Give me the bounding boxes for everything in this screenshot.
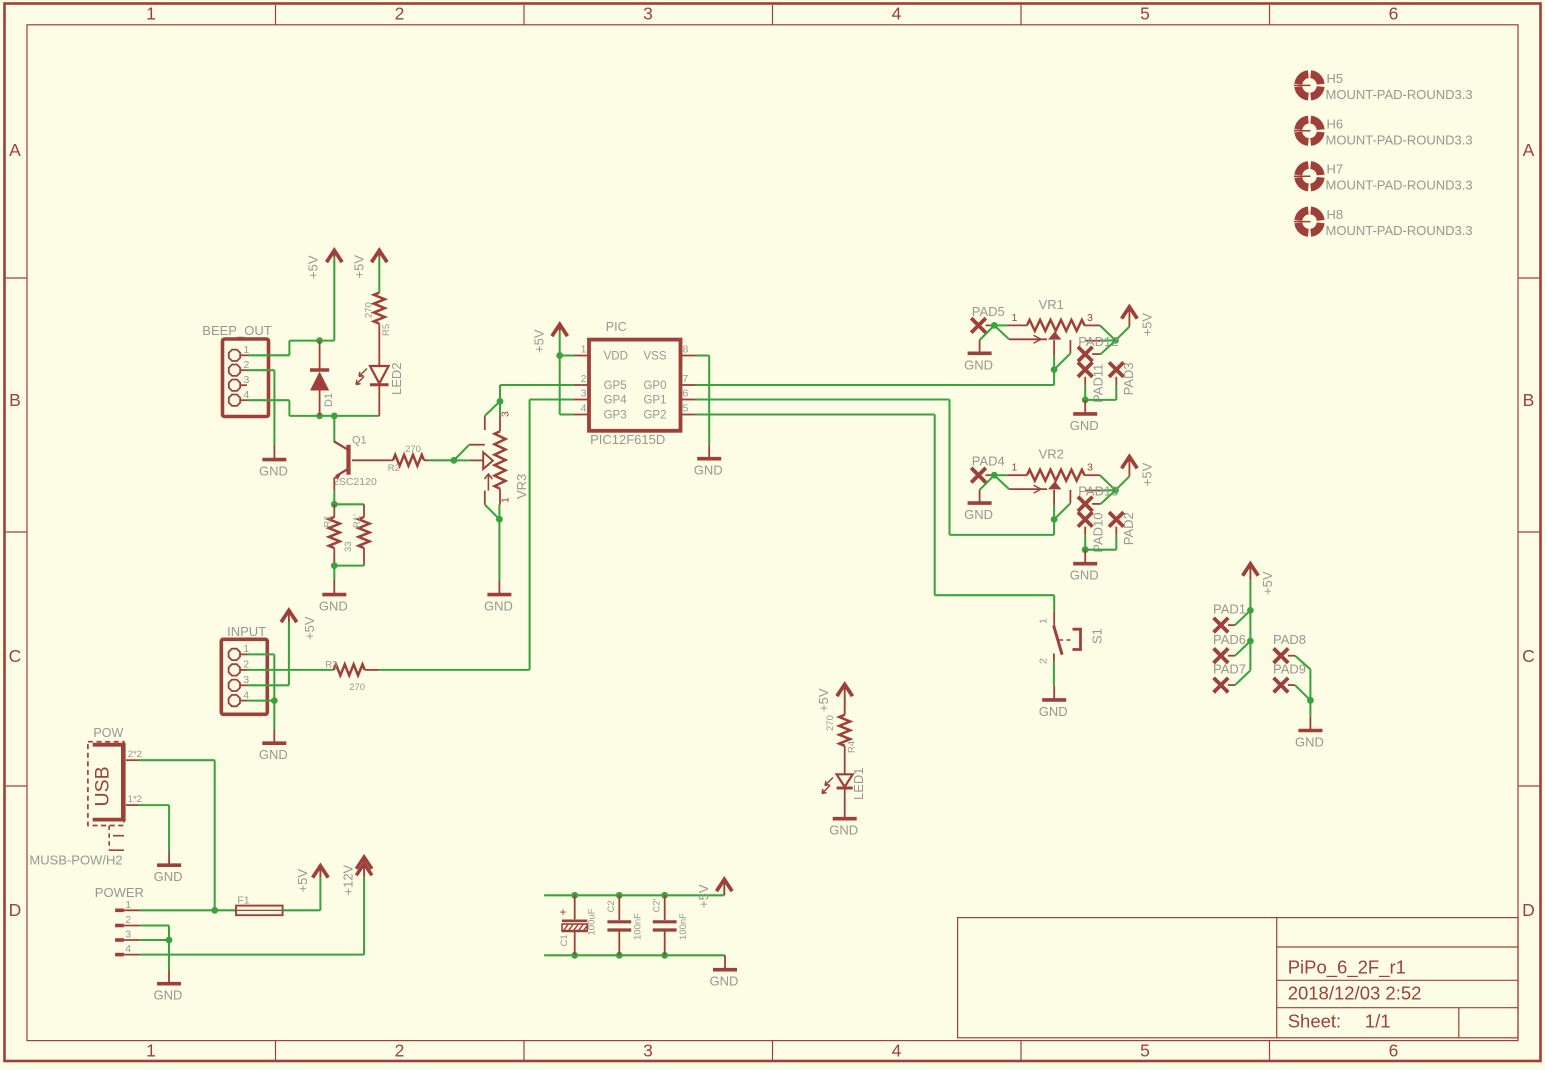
pad PAD4 X (971, 468, 986, 483)
wire bottom rail D1/LED2 (289, 415, 379, 417)
resistor R2 (391, 459, 393, 461)
svg-text:3: 3 (125, 929, 131, 941)
svg-text:2SC2120: 2SC2120 (333, 476, 377, 488)
wire GP2 to S1 (696, 413, 935, 415)
svg-text:PAD9: PAD9 (1273, 662, 1306, 677)
ground (USB) (168, 851, 170, 865)
svg-text:6: 6 (1389, 4, 1399, 24)
svg-text:PAD1: PAD1 (1213, 602, 1246, 617)
capacitor C2 100nF (618, 895, 620, 920)
svg-text:1: 1 (500, 497, 512, 503)
svg-text:3: 3 (643, 1041, 653, 1061)
PIC pin 2 GP5 (574, 384, 589, 386)
svg-text:PAD7: PAD7 (1213, 662, 1246, 677)
BEEP_OUT pin 2 (229, 365, 240, 376)
junction VR1 right (1112, 337, 1119, 344)
junction cap bottom (616, 952, 623, 959)
svg-text:+5V: +5V (352, 255, 367, 279)
svg-text:VR3: VR3 (514, 474, 529, 499)
connector USB body (88, 742, 124, 826)
svg-text:270: 270 (364, 302, 375, 318)
+5V symbol (F1) (313, 866, 329, 878)
BEEP_OUT pin 1 (229, 350, 240, 361)
wire R1 bottom rail (334, 565, 364, 567)
resistor R1' (363, 504, 365, 517)
wire R1 to GND (333, 566, 335, 580)
svg-text:1: 1 (1012, 312, 1018, 324)
pad PAD6 X (1214, 648, 1229, 663)
svg-text:GP3: GP3 (604, 409, 627, 421)
INPUT pin 1 (229, 649, 240, 660)
junction VDD (556, 352, 563, 359)
wire GP0 to VR1 wiper (696, 384, 1055, 386)
svg-text:R1': R1' (352, 514, 363, 528)
wire VSS to GND (696, 354, 710, 356)
USB pin 1*2 (126, 804, 139, 806)
svg-text:8: 8 (683, 343, 689, 355)
svg-text:4: 4 (892, 1041, 902, 1061)
svg-text:POWER: POWER (95, 885, 144, 900)
svg-text:R1: R1 (323, 515, 334, 527)
wire VR2 pin3 to +5V junction (1100, 475, 1116, 490)
wire PAD cluster to GND (1309, 700, 1311, 715)
POWER pin 2 (115, 924, 124, 928)
junction PAD9 (1307, 697, 1314, 704)
svg-text:GND: GND (154, 988, 183, 1003)
capacitor C1 100uF polarized (574, 895, 576, 919)
wire POWER to GND (168, 940, 170, 969)
wire VR3 to GND (498, 519, 500, 580)
svg-text:+5V: +5V (306, 255, 321, 279)
PIC pin 5 GP2 (681, 414, 696, 416)
svg-text:33: 33 (343, 541, 354, 552)
ground (BEEP_OUT) (273, 445, 275, 460)
svg-text:+: + (559, 905, 566, 919)
junction PAD4 (990, 474, 994, 476)
svg-text:GND: GND (829, 823, 858, 838)
pad PAD1 X (1214, 618, 1229, 633)
wire R3 to GP4 (379, 669, 529, 671)
VR3 bottom-left lead (484, 491, 486, 505)
+5V symbol (R5) (372, 250, 388, 262)
svg-text:PAD8: PAD8 (1273, 632, 1306, 647)
svg-text:3: 3 (643, 4, 653, 24)
pad PAD9 X (1274, 678, 1289, 693)
svg-text:2: 2 (395, 4, 405, 24)
wire PAD8 diagonal (1295, 656, 1310, 670)
svg-text:5: 5 (1140, 1041, 1150, 1061)
svg-text:PAD13: PAD13 (1078, 484, 1118, 499)
+5V symbol (VR2) (1116, 476, 1130, 490)
svg-text:2018/12/03 2:52: 2018/12/03 2:52 (1288, 983, 1422, 1004)
svg-text:PIC12F615D: PIC12F615D (590, 432, 665, 447)
wire BEEP_OUT pin1 to +5V rail (247, 354, 289, 356)
PIC pin 6 GP1 (681, 399, 696, 401)
svg-text:+12V: +12V (341, 864, 356, 895)
pad PAD5 X (971, 318, 986, 333)
pad PAD2 X (1109, 512, 1124, 527)
svg-text:5: 5 (1140, 4, 1150, 24)
wire BEEP_OUT pin2 to GND (247, 369, 274, 371)
svg-text:1: 1 (146, 4, 156, 24)
svg-text:GND: GND (964, 507, 993, 522)
ground (VR1 left) (979, 340, 981, 353)
wire INPUT pin4 (247, 700, 274, 702)
svg-text:D1: D1 (323, 393, 335, 407)
wire PAD3 down (1115, 377, 1117, 386)
PIC pin 3 GP4 (574, 399, 589, 401)
ground (caps) (724, 955, 726, 969)
junction cap bottom (661, 952, 668, 959)
+5V symbol (BEEP_OUT) (327, 250, 343, 262)
svg-text:270: 270 (349, 682, 365, 693)
svg-text:2*2: 2*2 (128, 749, 142, 760)
junction Q1 emitter / R1 top (331, 501, 338, 508)
junction PAD5 (990, 324, 994, 326)
junction VR1 wiper (1051, 366, 1058, 373)
junction cap bottom (571, 952, 578, 959)
svg-text:C1: C1 (559, 934, 570, 946)
svg-text:1/1: 1/1 (1365, 1011, 1391, 1032)
svg-text:3: 3 (500, 411, 512, 417)
LED LED1 (837, 774, 853, 787)
junction PAD1 (1247, 607, 1254, 614)
svg-text:VR2: VR2 (1039, 447, 1064, 462)
svg-text:+5V: +5V (532, 329, 547, 353)
wire VR2 wiper to junction (1053, 490, 1055, 506)
svg-text:S1: S1 (1090, 628, 1105, 644)
svg-text:GP1: GP1 (643, 394, 666, 406)
svg-text:3: 3 (1087, 462, 1093, 474)
wire PAD4 junction to pin1 (994, 474, 1008, 476)
POWER pin 3 (115, 938, 124, 942)
capacitor C2' 100nF (664, 895, 666, 920)
BEEP_OUT pin 3 (229, 380, 240, 391)
svg-text:Q1: Q1 (352, 435, 367, 447)
junction pads VR2 (1082, 546, 1089, 553)
USB pin 2*2 (126, 759, 139, 761)
wire PAD5 junction to pin1 (994, 324, 1008, 326)
resistor R5 (374, 293, 385, 324)
INPUT pin 3 (229, 680, 240, 691)
wire INPUT pin2 to R3 (247, 669, 334, 671)
frame row ticks right (1518, 277, 1539, 279)
svg-text:GP0: GP0 (643, 380, 666, 392)
svg-text:MOUNT-PAD-ROUND3.3: MOUNT-PAD-ROUND3.3 (1326, 178, 1473, 193)
svg-text:GP5: GP5 (604, 380, 627, 392)
svg-text:D: D (9, 900, 22, 920)
svg-text:MOUNT-PAD-ROUND3.3: MOUNT-PAD-ROUND3.3 (1326, 132, 1473, 147)
wire POWER pin3 (140, 939, 169, 941)
svg-text:GND: GND (694, 463, 723, 478)
frame column ticks bottom (275, 1041, 277, 1060)
svg-text:GND: GND (259, 747, 288, 762)
ground (POWER) (168, 969, 170, 984)
wire PAD11 down (1084, 377, 1086, 386)
pad PAD8 X (1274, 648, 1289, 663)
svg-text:3: 3 (581, 387, 587, 399)
svg-text:4: 4 (892, 4, 902, 24)
USB shield pin dashed (108, 826, 110, 851)
svg-text:1*2: 1*2 (128, 794, 142, 805)
wire VDD (560, 354, 574, 356)
svg-text:PIC: PIC (606, 320, 627, 334)
wire +5V cap rail (544, 894, 724, 896)
svg-text:GND: GND (1039, 704, 1068, 719)
wire PAD2 down (1115, 527, 1117, 536)
svg-text:7: 7 (683, 373, 689, 385)
POWER pin 1 (115, 908, 124, 912)
pad PAD3 X (1109, 362, 1124, 377)
svg-text:5: 5 (683, 402, 689, 414)
connector INPUT body (221, 639, 267, 714)
svg-text:1: 1 (146, 1041, 156, 1061)
svg-text:B: B (1523, 390, 1535, 410)
svg-text:C2': C2' (652, 898, 663, 912)
wire VR1 wiper to junction (1053, 340, 1055, 356)
frame column ticks top (275, 5, 277, 25)
junction POWER pin1 / USB (211, 907, 218, 914)
svg-text:H6: H6 (1327, 116, 1344, 131)
svg-text:C: C (1522, 646, 1535, 666)
svg-text:D: D (1522, 900, 1535, 920)
trimmer VR3 (499, 385, 501, 401)
+12V symbol (356, 857, 372, 869)
wire +12V to POWER pin4 (363, 877, 365, 954)
wire USB 2*2 to POWER pin1 (139, 759, 215, 761)
wire PAD12 to junction (1101, 340, 1116, 354)
wire GP1 to VR2 wiper (696, 398, 950, 400)
wire INPUT pin3 to +5V (247, 684, 289, 686)
title block row lines (1277, 946, 1518, 948)
mount pad H6 (1294, 120, 1321, 142)
svg-text:270: 270 (405, 444, 421, 455)
junction pads VR1 (1082, 397, 1089, 404)
junction R2/VR3 (451, 457, 458, 464)
mount pad H7 (1294, 165, 1321, 187)
junction POWER pin3 (166, 937, 173, 944)
pad PAD13 X (1078, 497, 1093, 512)
svg-text:+5V: +5V (302, 616, 317, 640)
junction INPUT pin4 (271, 697, 278, 704)
resistor R4 (839, 715, 850, 746)
svg-text:GP2: GP2 (643, 409, 666, 421)
ground (PAD cluster) (1309, 716, 1311, 731)
ground (INPUT) (273, 729, 275, 743)
wire R2 to VR3 junction (429, 459, 454, 461)
svg-text:PAD3: PAD3 (1121, 362, 1136, 395)
svg-text:100nF: 100nF (633, 913, 644, 940)
svg-text:GND: GND (154, 869, 183, 884)
IC U1 body PIC12F615D (589, 340, 681, 431)
resistor R3 (334, 664, 365, 675)
svg-text:A: A (9, 140, 21, 160)
+5V symbol (PAD cluster) (1243, 564, 1259, 576)
svg-text:GND: GND (484, 599, 513, 614)
wire USB 1*2 to GND (139, 804, 170, 806)
+5V symbol (LED1) (837, 684, 853, 696)
+5V symbol (VR1) (1116, 327, 1130, 341)
transistor Q1 2SC2120 (333, 416, 335, 443)
junction R1 bottom (331, 562, 338, 569)
junction VR2 wiper (1051, 516, 1058, 523)
wire GND cap rail (544, 954, 725, 956)
svg-text:LED1: LED1 (851, 767, 866, 800)
svg-text:INPUT: INPUT (227, 624, 266, 639)
PIC pin 1 VDD (574, 355, 589, 357)
svg-text:+5V: +5V (295, 869, 310, 893)
svg-text:2: 2 (395, 1041, 405, 1061)
svg-text:1: 1 (1012, 462, 1018, 474)
svg-text:GP4: GP4 (604, 394, 628, 406)
svg-text:2: 2 (581, 373, 587, 385)
pad PAD11 X (1078, 362, 1093, 377)
ground (S1) (1053, 686, 1055, 700)
title block divider vertical (1276, 918, 1278, 1038)
wire VR3 wiper to junction (454, 459, 470, 461)
svg-text:H5: H5 (1327, 71, 1344, 86)
svg-text:270: 270 (825, 715, 836, 731)
junction Q1 collector (331, 413, 338, 420)
junction at D1 top (316, 337, 323, 344)
wire GP5 to VR3 pin3 (500, 384, 574, 386)
pad PAD10 X (1078, 512, 1093, 527)
svg-text:C2: C2 (606, 900, 617, 912)
svg-text:1: 1 (581, 343, 587, 355)
wire INPUT to GND (273, 701, 275, 729)
svg-text:R2: R2 (388, 463, 400, 474)
svg-text:C: C (9, 646, 22, 666)
svg-text:LED2: LED2 (389, 362, 404, 395)
junction PAD6 (1247, 638, 1254, 645)
svg-text:GND: GND (964, 357, 993, 372)
svg-text:PiPo_6_2F_r1: PiPo_6_2F_r1 (1288, 957, 1406, 979)
wire BEEP_OUT pin4 to bottom rail (247, 399, 289, 401)
wire POWER pin1 to F1 (140, 909, 236, 911)
ground (VSS) (708, 445, 710, 459)
svg-text:VDD: VDD (604, 350, 628, 362)
junction VR3 top (497, 398, 504, 405)
svg-text:PAD11: PAD11 (1091, 364, 1106, 403)
LED LED2 (370, 366, 389, 384)
svg-text:3: 3 (244, 374, 250, 386)
svg-text:R3: R3 (325, 660, 337, 671)
svg-text:PAD12: PAD12 (1078, 334, 1118, 349)
svg-text:1: 1 (1038, 618, 1050, 624)
svg-text:MOUNT-PAD-ROUND3.3: MOUNT-PAD-ROUND3.3 (1326, 87, 1473, 102)
svg-text:MUSB-POW/H2: MUSB-POW/H2 (29, 853, 122, 868)
svg-text:100uF: 100uF (587, 908, 598, 935)
junction cap top (661, 892, 668, 899)
BEEP_OUT pin 4 (229, 395, 240, 406)
wire +5V down to GP3 (559, 356, 561, 415)
ground (LED1) (844, 817, 846, 819)
PIC pin 4 GP3 (574, 414, 589, 416)
wire PAD1 diagonal (1235, 610, 1250, 625)
pad PAD7 X (1214, 678, 1229, 693)
INPUT pin 4 (229, 695, 240, 706)
diode D1 (319, 341, 321, 370)
ground (VR1 pads) (1084, 400, 1086, 414)
svg-text:B: B (9, 390, 21, 410)
svg-text:4: 4 (125, 943, 131, 955)
wire VR3 pin1 down (498, 505, 500, 520)
svg-text:H7: H7 (1327, 162, 1344, 177)
title block outline (958, 918, 1518, 1038)
svg-text:6: 6 (683, 387, 689, 399)
svg-text:+5V: +5V (1140, 462, 1155, 486)
wire PAD13 to junction (1101, 490, 1116, 504)
wire INPUT pin1 to pin4 (247, 653, 274, 655)
svg-text:PAD2: PAD2 (1121, 512, 1136, 545)
mount pad H5 (1294, 74, 1321, 96)
svg-text:VSS: VSS (643, 350, 666, 362)
svg-text:+5V: +5V (1260, 571, 1275, 595)
ground (VR2 left) (979, 490, 981, 503)
connector BEEP_OUT body (223, 339, 269, 417)
svg-text:GND: GND (1070, 568, 1099, 583)
ground (VR3) (498, 580, 500, 595)
wire POWER pin2 (140, 924, 169, 926)
svg-text:GND: GND (1070, 418, 1099, 433)
PIC pin 7 GP0 (681, 384, 696, 386)
junction D1 bottom (316, 413, 323, 420)
svg-text:GND: GND (710, 974, 739, 989)
svg-text:PAD5: PAD5 (972, 304, 1005, 319)
switch S1 (1053, 595, 1055, 611)
frame row ticks left (6, 277, 27, 279)
junction cap top (571, 892, 578, 899)
svg-text:+5V: +5V (816, 688, 831, 712)
svg-text:H8: H8 (1327, 207, 1344, 222)
svg-text:GND: GND (1295, 735, 1324, 750)
svg-text:R5: R5 (381, 324, 392, 336)
svg-text:GND: GND (319, 599, 348, 614)
svg-text:VR1: VR1 (1039, 297, 1064, 312)
svg-text:2: 2 (1038, 658, 1050, 664)
svg-text:Sheet:: Sheet: (1288, 1011, 1342, 1032)
PIC pin 8 VSS (681, 355, 696, 357)
svg-text:MOUNT-PAD-ROUND3.3: MOUNT-PAD-ROUND3.3 (1326, 223, 1473, 238)
wire PAD6 diagonal (1235, 641, 1250, 656)
junction VR3 bottom (496, 516, 503, 523)
svg-text:PAD4: PAD4 (972, 454, 1005, 469)
svg-text:R4: R4 (847, 741, 858, 753)
+5V symbol (caps) (717, 879, 733, 891)
svg-text:POW: POW (93, 726, 123, 740)
svg-text:GND: GND (259, 464, 288, 479)
svg-text:BEEP_OUT: BEEP_OUT (202, 323, 271, 338)
INPUT pin 2 (229, 664, 240, 675)
+5V symbol (PIC VDD) (552, 324, 568, 336)
svg-text:USB: USB (92, 766, 114, 806)
wire F1 to +5V (283, 909, 321, 911)
svg-text:3: 3 (1087, 312, 1093, 324)
wire GP4 to R3 (vertical) (530, 398, 574, 400)
junction VR2 right (1112, 487, 1119, 494)
svg-text:PAD10: PAD10 (1091, 512, 1106, 552)
wire PAD9 diagonal (1295, 685, 1310, 700)
wire PAD10 down (1084, 527, 1086, 536)
svg-text:+5V: +5V (1140, 313, 1155, 337)
wire VR1 pin3 to +5V junction (1100, 325, 1116, 340)
mount pad H8 (1294, 210, 1321, 232)
+5V symbol (INPUT) (281, 610, 297, 622)
resistor R1 (333, 504, 335, 517)
wire PAD7 diagonal (1235, 670, 1250, 685)
wire R1 top rail (334, 503, 364, 505)
wire VR2 junction diagonals left (994, 475, 1009, 489)
